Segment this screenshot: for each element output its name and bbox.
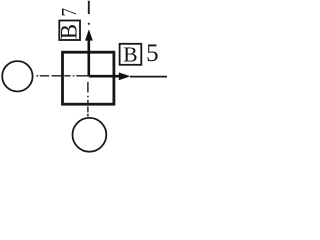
right view arrow head xyxy=(119,72,131,80)
square body outline xyxy=(63,52,114,104)
up view arrow head xyxy=(85,29,93,40)
label box B (top, rotated) xyxy=(59,21,80,41)
svg-text:B: B xyxy=(123,42,137,66)
horizontal centerline inside square xyxy=(64,75,88,77)
svg-text:7: 7 xyxy=(57,8,81,17)
up view arrow shaft xyxy=(88,40,91,76)
svg-text:5: 5 xyxy=(146,40,159,67)
vertical centerline below square (dash-dot) xyxy=(87,106,89,116)
sight line extension right of arrow xyxy=(130,76,167,78)
left circle xyxy=(2,61,32,91)
bottom circle xyxy=(73,118,107,152)
right view arrow shaft xyxy=(89,75,119,78)
vertical centerline above arrow (dash-dot) xyxy=(88,1,90,25)
horizontal centerline (circle to square, dash-dot) xyxy=(37,75,62,77)
vertical centerline inside square (below center) xyxy=(87,82,89,104)
svg-text:B: B xyxy=(56,24,81,39)
label box B (right) xyxy=(120,44,142,65)
